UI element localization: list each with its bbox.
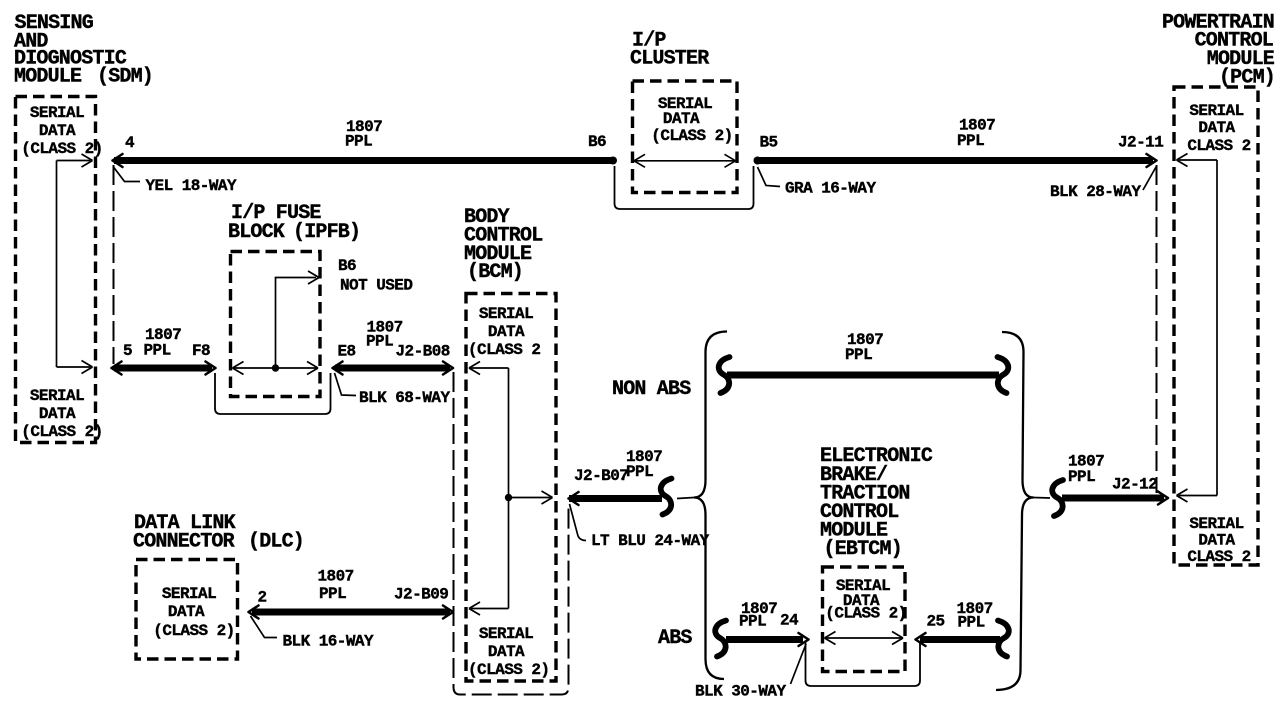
svg-text:J2-B07: J2-B07 bbox=[574, 467, 628, 485]
module EBTCM title bbox=[820, 445, 933, 561]
svg-text:DATA: DATA bbox=[488, 643, 525, 661]
svg-text:DATA: DATA bbox=[39, 405, 76, 423]
svg-text:J2-11: J2-11 bbox=[1118, 134, 1163, 152]
svg-text:B6: B6 bbox=[588, 133, 606, 151]
module IPFB title bbox=[228, 202, 360, 244]
svg-text:CONNECTOR: CONNECTOR bbox=[133, 531, 235, 554]
leader LT BLU 24-WAY bbox=[570, 504, 587, 541]
wire 1807 PPL SDM pin5 to IPFB F8 bbox=[114, 365, 212, 372]
svg-text:PPL: PPL bbox=[958, 614, 985, 632]
wire 1807 PPL EBTCM pin25 link bbox=[920, 636, 1000, 643]
svg-text:CLUSTER: CLUSTER bbox=[630, 48, 709, 71]
node DLC serial data bbox=[153, 585, 234, 640]
wire IPFB to B6 not used bbox=[276, 278, 317, 369]
wire arrow at SDM pin 4 bbox=[113, 154, 123, 167]
wire arrow at BCM J2-B07 bbox=[569, 492, 579, 505]
wire 1807 PPL non-abs link bbox=[727, 372, 999, 379]
svg-text:J2-12: J2-12 bbox=[1112, 476, 1157, 494]
wire arrow at PCM J2-11 bbox=[1147, 154, 1157, 167]
junction dot inside IPFB bbox=[272, 364, 279, 371]
arrow at IPFB B6 bbox=[308, 271, 319, 284]
svg-text:(CLASS 2): (CLASS 2) bbox=[21, 140, 102, 158]
arrow pair inside SDM bbox=[57, 154, 93, 374]
arrow inside IPFB bbox=[233, 362, 319, 375]
svg-text:J2-B08: J2-B08 bbox=[396, 343, 450, 361]
wire arrow at DLC pin 2 bbox=[249, 606, 259, 619]
svg-text:2: 2 bbox=[258, 589, 267, 607]
wire arrow at IPFB F8 bbox=[206, 362, 216, 375]
module SDM box bbox=[16, 97, 96, 443]
svg-text:NON ABS: NON ABS bbox=[612, 378, 691, 401]
wire link right brace cusp to J2-12 hook bbox=[1034, 497, 1051, 500]
connector line PCM J2-11 to J2-12 bbox=[1156, 165, 1158, 493]
svg-text:(CLASS 2): (CLASS 2) bbox=[21, 423, 102, 441]
svg-text:YEL 18-WAY: YEL 18-WAY bbox=[146, 177, 237, 195]
svg-text:DATA: DATA bbox=[39, 122, 76, 140]
svg-text:CLASS 2: CLASS 2 bbox=[1187, 137, 1250, 155]
svg-text:NOT USED: NOT USED bbox=[340, 277, 412, 295]
svg-text:(CLASS 2): (CLASS 2) bbox=[651, 127, 732, 145]
svg-text:DATA: DATA bbox=[663, 110, 700, 128]
module PCM box bbox=[1174, 87, 1258, 565]
svg-text:(DLC): (DLC) bbox=[248, 531, 304, 554]
brace left (abs/non-abs split) bbox=[694, 332, 727, 680]
arrow inside EBTCM bbox=[825, 632, 904, 645]
wire 1807 PPL IPC B5 to PCM J2-11 bbox=[758, 157, 1153, 164]
terminal dot at B5 bbox=[754, 157, 762, 165]
arrows inside BCM bbox=[469, 362, 553, 616]
node SDM serial data (bottom) bbox=[21, 387, 102, 441]
wire arrow at BCM J2-B09 bbox=[443, 606, 453, 619]
svg-text:DATA: DATA bbox=[1198, 119, 1235, 137]
wire arrow at BCM J2-B08 bbox=[443, 362, 453, 375]
bracket under IPFB box bbox=[215, 373, 331, 414]
svg-text:LT BLU 24-WAY: LT BLU 24-WAY bbox=[591, 532, 710, 550]
junction dot inside BCM bbox=[505, 494, 512, 501]
wire 1807 PPL DLC pin2 to BCM J2-B09 bbox=[252, 609, 450, 616]
connector hook at non-abs wire left end bbox=[719, 357, 730, 393]
svg-text:(CLASS 2): (CLASS 2) bbox=[153, 622, 234, 640]
node EBTCM serial data bbox=[825, 577, 906, 623]
bracket under I/P cluster box bbox=[615, 166, 754, 209]
module DLC box bbox=[136, 560, 238, 660]
arrow inside I/P cluster bbox=[634, 154, 736, 167]
connector line SDM pins 4-5 bbox=[113, 165, 115, 364]
module I/P CLUSTER title bbox=[630, 30, 709, 71]
svg-text:MODULE: MODULE bbox=[14, 66, 82, 89]
svg-text:PPL: PPL bbox=[319, 585, 346, 603]
module IPFB box bbox=[231, 252, 321, 397]
wire 1807 PPL BCM J2-B07 bbox=[569, 495, 662, 502]
svg-text:(CLASS 2): (CLASS 2) bbox=[468, 661, 549, 679]
svg-text:DATA: DATA bbox=[1198, 532, 1235, 550]
node SDM serial data (top) bbox=[21, 104, 102, 158]
svg-text:DATA: DATA bbox=[488, 323, 525, 341]
svg-text:GRA 16-WAY: GRA 16-WAY bbox=[785, 180, 876, 198]
leader BLK 16-WAY bbox=[251, 616, 278, 638]
svg-text:DATA: DATA bbox=[168, 603, 205, 621]
module BCM title bbox=[464, 206, 542, 284]
wire 1807 PPL to PCM J2-12 bbox=[1062, 495, 1164, 502]
connector hook at non-abs wire right end bbox=[998, 357, 1009, 393]
wire 1807 PPL abs link to EBTCM pin24 bbox=[726, 636, 803, 643]
brace right (abs/non-abs join) bbox=[996, 332, 1034, 690]
arrows inside PCM bbox=[1177, 154, 1218, 503]
svg-text:SERIAL: SERIAL bbox=[1189, 102, 1243, 120]
svg-text:CLASS 2: CLASS 2 bbox=[1187, 548, 1250, 566]
svg-text:(EBTCM): (EBTCM) bbox=[824, 538, 902, 561]
leader BLK 68-WAY bbox=[335, 373, 357, 396]
svg-text:(SDM): (SDM) bbox=[97, 66, 153, 89]
module DLC title bbox=[133, 512, 304, 554]
svg-text:PPL: PPL bbox=[626, 463, 653, 481]
svg-text:SERIAL: SERIAL bbox=[162, 585, 216, 603]
svg-text:SERIAL: SERIAL bbox=[30, 104, 84, 122]
svg-text:1807: 1807 bbox=[318, 568, 354, 586]
wire arrow at EBTCM pin 24 bbox=[799, 633, 809, 646]
svg-text:E8: E8 bbox=[338, 343, 356, 361]
connector hook at abs wire left end bbox=[715, 621, 726, 657]
wire link J2-B07 hook to left brace cusp bbox=[677, 498, 694, 499]
bracket under EBTCM box bbox=[806, 642, 921, 686]
svg-text:PPL: PPL bbox=[845, 346, 872, 364]
connector hook at J2-B07 wire end bbox=[661, 479, 672, 515]
module EBTCM serial data box bbox=[823, 567, 906, 672]
leader BLK 28-WAY bbox=[1143, 167, 1156, 190]
node PCM serial data (bottom) bbox=[1187, 515, 1250, 566]
svg-text:BLOCK: BLOCK bbox=[228, 221, 285, 244]
svg-text:PPL: PPL bbox=[345, 133, 372, 151]
svg-text:SERIAL: SERIAL bbox=[1189, 515, 1243, 533]
wire arrow at PCM J2-12 bbox=[1158, 492, 1168, 505]
module BCM box bbox=[466, 294, 556, 682]
svg-text:B5: B5 bbox=[760, 134, 778, 152]
tick at J2-B07 label bbox=[622, 469, 629, 480]
svg-text:(CLASS 2): (CLASS 2) bbox=[825, 605, 906, 623]
svg-text:(BCM): (BCM) bbox=[467, 261, 523, 284]
svg-text:J2-B09: J2-B09 bbox=[394, 586, 448, 604]
module PCM title bbox=[1162, 12, 1275, 90]
wire arrow at IPFB E8 bbox=[333, 362, 343, 375]
svg-text:SERIAL: SERIAL bbox=[479, 625, 533, 643]
wire 1807 PPL SDM pin4 to IPC B6 bbox=[114, 157, 611, 164]
terminal dot at B6 bbox=[609, 157, 617, 165]
leader BLK 30-WAY bbox=[791, 644, 807, 684]
svg-text:24: 24 bbox=[780, 612, 799, 630]
connector hook at abs wire right end bbox=[998, 621, 1009, 657]
connector hook at J2-12 wire left end bbox=[1052, 480, 1063, 516]
wire arrow at SDM pin 5 bbox=[112, 362, 122, 375]
svg-text:4: 4 bbox=[125, 134, 135, 152]
svg-text:PPL: PPL bbox=[957, 132, 984, 150]
svg-text:BLK 16-WAY: BLK 16-WAY bbox=[283, 633, 374, 651]
leader YEL 18-WAY bbox=[114, 167, 141, 182]
node BCM serial data (bottom) bbox=[468, 625, 549, 679]
svg-text:ABS: ABS bbox=[658, 627, 692, 650]
svg-text:(CLASS 2: (CLASS 2 bbox=[468, 341, 540, 359]
module SDM title bbox=[14, 12, 153, 89]
svg-text:PPL: PPL bbox=[739, 613, 766, 631]
svg-text:PPL: PPL bbox=[366, 333, 393, 351]
node I/P cluster serial data bbox=[651, 95, 732, 145]
connector line BCM J2-B08/B09/B07 bbox=[454, 372, 569, 695]
leader GRA 16-WAY bbox=[758, 167, 781, 187]
svg-text:BLK 68-WAY: BLK 68-WAY bbox=[359, 389, 450, 407]
svg-text:SERIAL: SERIAL bbox=[479, 305, 533, 323]
svg-text:(IPFB): (IPFB) bbox=[293, 221, 360, 244]
module I/P cluster box bbox=[633, 81, 738, 193]
svg-text:BLK 30-WAY: BLK 30-WAY bbox=[695, 683, 786, 701]
svg-text:F8: F8 bbox=[192, 342, 210, 360]
svg-text:B6: B6 bbox=[338, 257, 356, 275]
wire 1807 PPL IPFB E8 to BCM J2-B08 bbox=[335, 365, 450, 372]
node BCM serial data (top) bbox=[468, 305, 540, 359]
node PCM serial data (top) bbox=[1187, 102, 1250, 155]
svg-text:BLK 28-WAY: BLK 28-WAY bbox=[1050, 183, 1141, 201]
svg-text:SERIAL: SERIAL bbox=[30, 387, 84, 405]
svg-text:25: 25 bbox=[927, 613, 945, 631]
svg-text:PPL: PPL bbox=[144, 342, 171, 360]
wire arrow at EBTCM pin 25 bbox=[916, 633, 926, 646]
svg-text:5: 5 bbox=[123, 342, 132, 360]
svg-text:PPL: PPL bbox=[1068, 468, 1095, 486]
